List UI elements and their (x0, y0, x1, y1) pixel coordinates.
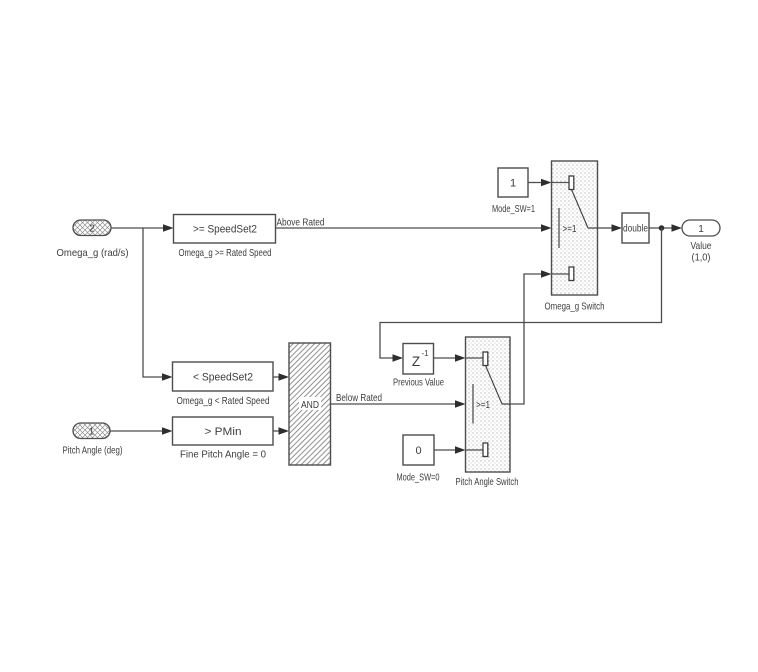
logical operator block AND (289, 343, 331, 465)
wire Mode_SW=0 to Pitch Angle Switch bottom input (434, 446, 483, 454)
outport 1 Value (1,0) (682, 220, 720, 264)
svg-text:Above Rated: Above Rated (277, 217, 325, 229)
constant block Mode_SW=1 (492, 168, 535, 215)
svg-text:Z: Z (412, 354, 420, 369)
wire Above Rated to Omega_g Switch (276, 217, 552, 232)
wire Mode_SW=1 to Omega_g Switch top input (528, 179, 569, 187)
svg-text:Omega_g (rad/s): Omega_g (rad/s) (57, 247, 129, 259)
svg-text:>=1: >=1 (563, 224, 577, 235)
wire inport2 to >= SpeedSet2 (111, 224, 174, 232)
svg-text:< SpeedSet2: < SpeedSet2 (193, 372, 253, 384)
svg-text:double: double (623, 224, 648, 235)
wire < SpeedSet2 to AND (273, 373, 289, 381)
svg-text:-1: -1 (422, 349, 430, 358)
wire > PMin to AND (273, 427, 289, 435)
wire Below Rated AND to Pitch Angle Switch (331, 392, 466, 408)
svg-text:1: 1 (89, 427, 95, 438)
svg-text:Mode_SW=0: Mode_SW=0 (397, 472, 440, 484)
svg-text:Mode_SW=1: Mode_SW=1 (492, 203, 535, 215)
svg-text:Omega_g Switch: Omega_g Switch (545, 301, 605, 313)
svg-text:Pitch Angle Switch: Pitch Angle Switch (456, 476, 519, 488)
switch block Pitch Angle Switch (456, 337, 519, 488)
wire Omega_g Switch to double (598, 224, 623, 232)
wire Previous Value to Pitch Angle Switch top input (434, 354, 484, 362)
wire Pitch Angle Switch output to Omega_g Switch bottom input (510, 270, 569, 404)
unit delay block Previous Value (393, 344, 444, 389)
svg-text:1: 1 (510, 178, 516, 190)
switch block Omega_g Switch (545, 161, 605, 313)
svg-text:0: 0 (415, 445, 421, 457)
inport 1 Pitch Angle (deg) (63, 423, 123, 457)
relational operator block >= SpeedSet2 (174, 215, 276, 260)
svg-text:>= SpeedSet2: >= SpeedSet2 (193, 224, 257, 236)
inport 2 Omega_g (rad/s) (57, 220, 129, 259)
svg-text:Fine Pitch Angle = 0: Fine Pitch Angle = 0 (180, 449, 266, 461)
relational operator block > PMin (173, 417, 274, 461)
wire branch down to < SpeedSet2 (143, 228, 173, 381)
wire double to outport with junction (649, 224, 682, 232)
svg-text:Value: Value (691, 240, 712, 252)
data type conversion block double (622, 213, 649, 243)
wire feedback junction to Previous Value (380, 228, 662, 362)
svg-text:> PMin: > PMin (205, 426, 242, 438)
wire inport1 to > PMin (110, 427, 173, 435)
svg-text:Pitch Angle (deg): Pitch Angle (deg) (63, 445, 123, 457)
svg-text:1: 1 (698, 224, 704, 235)
svg-text:Below Rated: Below Rated (336, 392, 382, 404)
svg-text:>=1: >=1 (476, 400, 490, 411)
relational operator block < SpeedSet2 (173, 362, 274, 407)
svg-text:Previous Value: Previous Value (393, 377, 444, 389)
svg-text:Omega_g < Rated Speed: Omega_g < Rated Speed (177, 395, 270, 407)
svg-text:Omega_g >= Rated Speed: Omega_g >= Rated Speed (179, 247, 272, 259)
svg-text:2: 2 (89, 224, 95, 235)
svg-text:AND: AND (301, 399, 319, 411)
svg-text:(1,0): (1,0) (692, 252, 711, 264)
constant block Mode_SW=0 (397, 435, 440, 484)
